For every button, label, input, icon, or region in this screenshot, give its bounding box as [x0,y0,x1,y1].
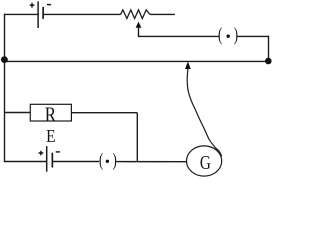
wire rheostat right stub [150,13,175,15]
wire bottom left to battery E [5,161,47,163]
wire R branch from left line [5,112,31,114]
galvanometer G circle [187,146,222,176]
svg-text:R: R [45,102,57,126]
wire right of R down to bottom row [136,113,138,162]
rheostat wiper arrowhead [136,22,142,28]
wire battery to rheostat [44,13,121,15]
svg-text:G: G [200,152,211,174]
node B right junction dot [265,58,272,65]
battery B1 positive plate [37,1,39,28]
wire battery E to key K2 [53,161,99,163]
wire key K2 to galvanometer [116,161,186,163]
wire potentiometer AB [5,60,269,62]
svg-text:(: ( [218,24,222,45]
battery E minus sign [56,151,60,153]
wire jockey curve to G [187,69,222,157]
battery E positive plate [46,146,48,172]
battery E plus sign [39,151,44,156]
battery B1 plus sign [30,3,35,8]
svg-text:): ) [234,24,238,45]
key K1 contact dot [227,35,230,38]
svg-text:(: ( [99,150,103,171]
resistance box R outline [30,104,71,121]
wire wiper row to key K1 [138,35,219,37]
wire right vertical down to node [268,36,270,61]
svg-text:): ) [113,150,117,171]
wire key K1 to right corner [238,35,269,37]
svg-text:E: E [46,126,55,146]
battery E negative plate [52,153,54,168]
key K2 contact dot [106,160,109,163]
wire R box to right corner [71,112,137,114]
resistor rheostat zigzag [121,10,150,19]
battery B1 negative plate [42,7,44,19]
wire rheostat wiper stem [138,27,140,36]
jockey arrowhead on potentiometer wire [185,62,191,70]
wire top left to battery [4,13,38,15]
wire left vertical [4,14,6,163]
node A left junction dot [1,56,8,63]
battery B1 minus sign [47,4,51,6]
